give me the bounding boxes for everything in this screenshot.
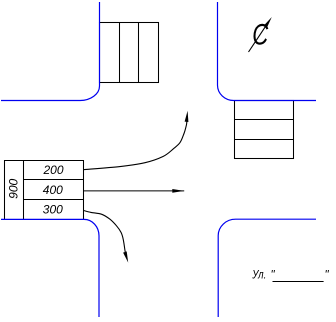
- svg-text:900: 900: [6, 178, 20, 198]
- svg-text:С: С: [252, 19, 268, 52]
- left-turn flow arrow curve: [84, 121, 187, 169]
- straight flow arrow: [84, 190, 185, 192]
- svg-text:300: 300: [43, 203, 63, 217]
- svg-text:": ": [325, 269, 330, 281]
- svg-text:": ": [271, 269, 276, 281]
- svg-text:400: 400: [43, 183, 63, 197]
- svg-text:Ул.: Ул.: [251, 268, 266, 282]
- straight arrowhead: [172, 189, 184, 193]
- crosswalk table top: [100, 23, 159, 83]
- crosswalk table right: [235, 101, 294, 159]
- north arrow shaft: [249, 21, 270, 52]
- road curb bottom-left: [1, 219, 99, 317]
- right-turn arrowhead: [123, 251, 128, 262]
- right-turn flow arrow curve: [84, 211, 126, 253]
- road curb bottom-right: [218, 219, 316, 317]
- blank underline: [273, 281, 324, 283]
- north arrowhead: [265, 17, 272, 27]
- traffic volume table left: [5, 161, 84, 220]
- svg-text:200: 200: [42, 163, 63, 177]
- left-turn arrowhead: [185, 111, 189, 122]
- road curb top-right: [218, 2, 317, 101]
- road curb top-left: [1, 2, 100, 101]
